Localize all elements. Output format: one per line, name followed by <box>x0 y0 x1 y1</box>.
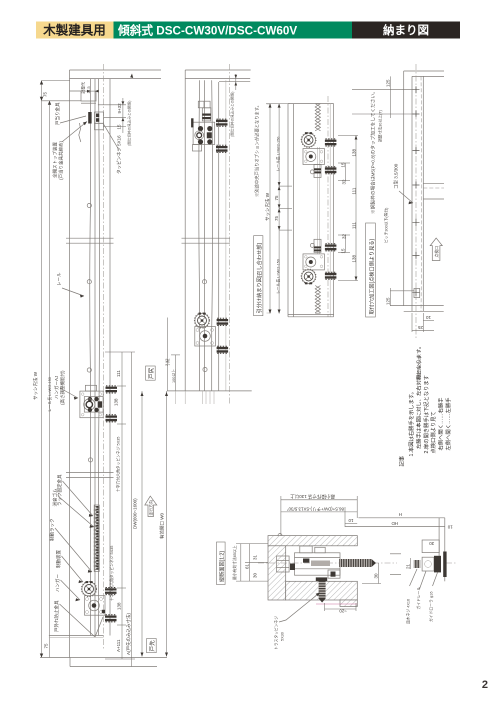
svg-text:30: 30 <box>429 541 435 546</box>
hanger AJ assembly (upper) <box>80 385 117 422</box>
svg-text:調整寸法30以上(T): 調整寸法30以上(T) <box>378 109 383 142</box>
svg-text:(戸当り金具共締め): (戸当り金具共締め) <box>58 141 65 180</box>
guide roller detail (bottom right) <box>345 512 453 624</box>
svg-text:走行方向: 走行方向 <box>149 500 154 515</box>
svg-text:ガイドローラ φ16: ガイドローラ φ16 <box>429 591 434 622</box>
screw circles on panel <box>87 203 91 207</box>
svg-text:有効開口 W0: 有効開口 W0 <box>159 513 166 539</box>
svg-text:15: 15 <box>117 124 122 130</box>
svg-text:最小操作寸法 130以上: 最小操作寸法 130以上 <box>290 493 335 500</box>
door stop bracket (dark) <box>88 112 91 124</box>
leader: tapping screw 5x16 <box>104 124 120 150</box>
svg-text:15: 15 <box>341 162 346 168</box>
rack (toothed strip) <box>94 505 99 572</box>
svg-text:左側へ開く……左勝手: 左側へ開く……左勝手 <box>444 397 452 451</box>
frame left face <box>69 70 71 658</box>
svg-text:30: 30 <box>253 572 258 578</box>
door hanger bolt lines <box>89 79 92 636</box>
svg-text:ピッチ300以下(等分): ピッチ300以下(等分) <box>384 207 389 243</box>
svg-text:点検口: 点検口 <box>434 246 439 258</box>
svg-text:タッピンネジ 5X16: タッピンネジ 5X16 <box>116 135 123 174</box>
top dims <box>280 496 282 536</box>
right side stubs <box>423 182 444 184</box>
right-side small dims of head <box>98 104 126 106</box>
svg-text:2.扉の開き勝手は下記となります: 2.扉の開き勝手は下記となります <box>422 375 430 453</box>
svg-text:25: 25 <box>417 325 423 330</box>
svg-text:消音ゴム: 消音ゴム <box>52 488 59 506</box>
svg-text:DW(600~1600): DW(600~1600) <box>133 498 138 529</box>
lower assembly (mirror) <box>301 239 336 284</box>
svg-text:10: 10 <box>348 518 354 523</box>
svg-text:30: 30 <box>374 573 379 579</box>
svg-text:HD: HD <box>391 521 398 526</box>
svg-text:H: H <box>399 512 402 517</box>
big screw to right <box>339 559 372 567</box>
hole crosses <box>413 86 420 296</box>
dims right <box>338 135 358 137</box>
svg-text:コ型 3.5/300: コ型 3.5/300 <box>393 163 399 189</box>
svg-text:32: 32 <box>342 179 347 185</box>
svg-text:ガイドレール: ガイドレール <box>416 587 421 610</box>
rail zigzag upper <box>315 104 320 131</box>
svg-text:戸当り金具: 戸当り金具 <box>54 102 61 125</box>
tosaki box <box>147 639 157 653</box>
magenta layer line <box>316 603 357 605</box>
svg-text:138: 138 <box>117 602 122 610</box>
125 bottom dim <box>390 288 392 306</box>
door bottom edge <box>49 635 104 637</box>
hatched right step <box>340 600 357 607</box>
svg-text:125: 125 <box>386 297 391 305</box>
svg-text:75: 75 <box>274 215 279 221</box>
notes block <box>398 344 453 467</box>
30 dim right <box>362 583 381 585</box>
svg-text:縦断面図[1:2]: 縦断面図[1:2] <box>217 551 225 582</box>
svg-text:(高さ調整機能付): (高さ調整機能付) <box>59 370 66 405</box>
boxed label : hikiwake <box>254 236 263 316</box>
right dim stack of d1 <box>121 352 123 659</box>
svg-text:(間仕切枠の見込みとの関係): (間仕切枠の見込みとの関係) <box>230 92 235 137</box>
svg-text:5X30: 5X30 <box>281 632 285 641</box>
hatched ceiling <box>268 536 357 546</box>
svg-text:戸尻: 戸尻 <box>148 367 155 379</box>
svg-text:引分け納まり図[召し合わせ部]: 引分け納まり図[召し合わせ部] <box>255 243 263 314</box>
drawing 3 : center-right strip <box>288 96 358 317</box>
svg-text:最小有効寸法65以上: 最小有効寸法65以上 <box>232 545 237 580</box>
svg-text:納まり図: 納まり図 <box>383 23 429 37</box>
svg-text:31: 31 <box>253 554 258 560</box>
direction arrow <box>145 496 157 516</box>
svg-text:138: 138 <box>352 254 357 262</box>
svg-text:ハンガー: ハンガー <box>54 574 61 592</box>
hatched bottom slab <box>286 581 358 600</box>
tojiri box <box>146 366 156 380</box>
svg-text:15: 15 <box>341 248 346 254</box>
leader: tozari kanagu <box>60 116 86 123</box>
svg-text:75: 75 <box>44 643 49 649</box>
header band <box>36 22 460 39</box>
leaders + labels <box>410 569 418 586</box>
svg-text:86.5+(DW+チリ)-5X13.5/30°: 86.5+(DW+チリ)-5X13.5/30° <box>286 506 344 511</box>
rail zigzag lower <box>315 286 320 314</box>
bottom end line <box>167 390 252 392</box>
svg-text:75: 75 <box>274 195 279 201</box>
svg-text:10: 10 <box>447 525 453 530</box>
break lines <box>182 237 231 239</box>
svg-text:左勝手は本図に対し、左右対称となります。: 左勝手は本図に対し、左右対称となります。 <box>415 344 423 449</box>
svg-text:制動装置: 制動装置 <box>55 550 62 568</box>
upper hanger assembly <box>191 101 227 152</box>
dim line 75 / rail length (left) <box>41 81 43 658</box>
centerline <box>103 64 105 649</box>
svg-text:125: 125 <box>386 79 391 87</box>
upper assembly (rotated) <box>301 132 336 177</box>
datum corner marks <box>267 104 271 107</box>
left stubs <box>390 553 401 555</box>
svg-text:111: 111 <box>352 187 357 194</box>
ceiling line <box>70 69 162 71</box>
svg-text:調整代: 調整代 <box>81 82 86 94</box>
svg-text:9+32: 9+32 <box>117 103 122 114</box>
inspection-side arrow <box>430 238 442 261</box>
svg-text:レール長 L=W/2-150: レール長 L=W/2-150 <box>275 259 280 294</box>
svg-text:取付穴加工図[点検口側より見る]: 取付穴加工図[点検口側より見る] <box>367 239 375 315</box>
wall face right <box>109 79 111 636</box>
vertical screw <box>316 577 327 581</box>
svg-text:ハンガーAJ: ハンガーAJ <box>53 376 60 399</box>
adjust dim 11.5 <box>84 90 98 92</box>
svg-text:制動ラック: 制動ラック <box>49 519 56 542</box>
svg-text:11.5: 11.5 <box>87 86 91 93</box>
operator hardware <box>277 546 377 603</box>
cross-section detail <box>258 493 456 650</box>
svg-text:木製建具用: 木製建具用 <box>42 23 106 38</box>
svg-text:皿木ネジ 4X16: 皿木ネジ 4X16 <box>406 599 411 624</box>
roller + bracket <box>422 557 434 571</box>
svg-text:全開ストップ装置: 全開ストップ装置 <box>52 142 59 178</box>
svg-text:※鋼製枠の場合はM5(P=0.8)のタップ加工をしてください: ※鋼製枠の場合はM5(P=0.8)のタップ加工をしてください。 <box>370 89 377 214</box>
truss screw label <box>279 593 320 623</box>
svg-text:32: 32 <box>342 233 347 239</box>
svg-text:(間仕切枠の見込みとの関係): (間仕切枠の見込みとの関係) <box>127 101 132 146</box>
stop arm zigzag <box>79 123 81 142</box>
bottom dims <box>422 313 424 332</box>
svg-text:111: 111 <box>116 370 121 377</box>
125 top dim <box>352 89 414 91</box>
svg-text:75: 75 <box>43 91 48 97</box>
head profile step <box>70 91 97 101</box>
svg-text:記事: 記事 <box>398 455 406 466</box>
svg-text:サッシ内法 W: サッシ内法 W <box>32 371 39 400</box>
section small dims (left) <box>236 544 268 582</box>
svg-text:サッシ内法 W: サッシ内法 W <box>264 192 271 221</box>
dim column between drawings <box>264 104 292 314</box>
bottom <box>390 290 414 292</box>
hatched left wall <box>268 546 286 600</box>
small screw <box>414 560 420 568</box>
floor line <box>40 657 167 659</box>
svg-text:138: 138 <box>114 398 119 406</box>
svg-text:傾斜式 DSC-CW30V/DSC-CW60V: 傾斜式 DSC-CW30V/DSC-CW60V <box>117 24 297 38</box>
DW / W0 dim lines <box>141 391 143 657</box>
svg-text:A(戸先のみ込み寸法): A(戸先のみ込み寸法) <box>125 613 132 655</box>
svg-text:レール長 L=W/2-150: レール長 L=W/2-150 <box>275 137 280 172</box>
boxed label : section <box>217 542 226 585</box>
svg-text:61: 61 <box>245 563 250 569</box>
svg-text:十字穴付六角タッピンネジ 5X35: 十字穴付六角タッピンネジ 5X35 <box>116 437 121 492</box>
leader: zenkai stop <box>63 122 88 142</box>
svg-text:21: 21 <box>406 563 411 569</box>
svg-text:※別途中央戸当りオプションが必要となります。: ※別途中央戸当りオプションが必要となります。 <box>254 103 261 197</box>
~20 dim bottom <box>325 608 357 610</box>
svg-text:2: 2 <box>482 679 488 691</box>
svg-text:右側へ開く……右勝手: 右側へ開く……右勝手 <box>437 397 445 451</box>
svg-text:111: 111 <box>352 222 357 229</box>
svg-text:10: 10 <box>425 315 431 320</box>
drawing 4 : far right mounting strip <box>352 64 444 380</box>
hanger assembly (lower) <box>82 581 117 622</box>
svg-text:点検口側より見て: 点検口側より見て <box>429 411 437 453</box>
break lines lower <box>66 472 114 474</box>
svg-text:レール: レール <box>57 272 62 286</box>
lower hanger assembly <box>195 313 229 354</box>
panel screw circles <box>202 280 206 284</box>
drawing 2 : middle strip (meeting stile side) <box>167 64 271 404</box>
svg-text:138: 138 <box>352 148 357 156</box>
svg-text:戸外れ防止金具: 戸外れ防止金具 <box>53 600 60 632</box>
svg-text:1.本図は右勝手を示します。: 1.本図は右勝手を示します。 <box>407 389 415 456</box>
svg-text:レール長 L=W/2-150: レール長 L=W/2-150 <box>47 377 52 412</box>
svg-text:A+111: A+111 <box>116 639 121 652</box>
drawing 1 : left elevation <box>32 64 180 667</box>
break lines upper <box>66 237 114 239</box>
centerline horizontal <box>258 562 397 564</box>
stop device body <box>95 112 104 123</box>
svg-text:トラスタッピンネジ: トラスタッピンネジ <box>274 616 279 650</box>
svg-text:~20: ~20 <box>339 608 347 613</box>
svg-text:戸先: 戸先 <box>148 640 156 652</box>
boxed label : mounting hole layout <box>366 223 376 317</box>
